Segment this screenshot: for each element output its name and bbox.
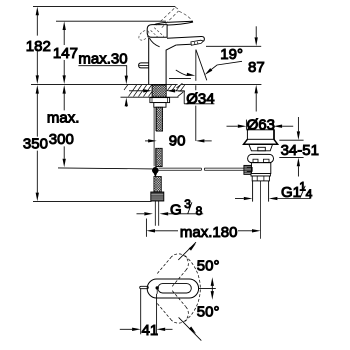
dim 182 vertical with arrows — [36, 15, 38, 76]
counter bottom line left part — [121, 96, 179, 98]
svg-text:350: 350 — [23, 135, 48, 152]
lever swing arc across body — [149, 38, 159, 47]
aerator at spout tip — [191, 40, 204, 45]
faucet lever handle (side view) — [149, 21, 193, 27]
label Ø34 box — [184, 91, 214, 104]
lever width double arrow — [211, 284, 213, 293]
svg-text:max.180: max.180 — [180, 224, 238, 241]
pop-up waste seat washer — [248, 154, 274, 162]
svg-text:147: 147 — [53, 45, 78, 62]
svg-text:G: G — [170, 202, 182, 219]
waste tailpipe centerline — [260, 181, 262, 239]
dim max180 line and arrows — [155, 230, 178, 232]
dim 90 vertical reference from aerator — [195, 85, 197, 141]
svg-text:90: 90 — [169, 133, 186, 150]
counter hatching left of shank — [124, 85, 157, 97]
upper 50 leader — [178, 242, 196, 260]
svg-text:182: 182 — [26, 38, 51, 55]
pop-up waste body — [251, 163, 270, 174]
svg-text:300: 300 — [49, 131, 74, 148]
top view cartridge center dot — [156, 286, 159, 289]
threaded mounting shank through counter — [152, 85, 166, 97]
dim 34-51 arrows — [297, 117, 299, 131]
svg-text:3: 3 — [184, 197, 191, 211]
spout top edge and tip — [167, 36, 204, 41]
dim 34-51 extension lines — [279, 140, 303, 157]
spout underside — [176, 43, 191, 46]
dashed lever tip travel arc — [185, 256, 200, 322]
dashed lever swung up 50 — [157, 257, 186, 286]
flexible hose segment 1 — [156, 107, 162, 131]
svg-text:41: 41 — [142, 322, 159, 339]
svg-text:50°: 50° — [197, 257, 220, 274]
top view faucet body and lever capsule — [147, 279, 198, 298]
flexible hose segment 3 — [154, 177, 161, 192]
counter break marks — [177, 83, 184, 96]
mounting nut — [154, 103, 166, 108]
faucet body left edge — [148, 37, 150, 84]
dashed lever swung down 50 — [157, 291, 186, 320]
waste locknut — [251, 174, 270, 177]
svg-text:Ø34: Ø34 — [186, 90, 214, 107]
dim 87 arrows — [255, 26, 257, 37]
svg-text:87: 87 — [248, 59, 265, 76]
dim Ø63 arrows — [227, 125, 238, 127]
svg-text:8: 8 — [196, 204, 203, 218]
horizontal pop-up rod — [159, 168, 244, 170]
counter bottom line right part — [178, 90, 185, 92]
dim G3/8 arrows at hose end — [137, 213, 145, 215]
dim 41 arrows — [120, 328, 132, 330]
dim max180 extension line — [145, 219, 147, 237]
19-degree arc arrow — [176, 70, 187, 75]
top view lever inner outline — [158, 284, 191, 293]
svg-text:34-51: 34-51 — [281, 142, 319, 159]
dim 350 vertical with arrows — [36, 93, 38, 192]
phantom raised lever (dashed) — [157, 7, 179, 27]
svg-text:max.: max. — [47, 110, 80, 127]
19-degree vertical reference line — [195, 50, 197, 81]
pop-up lift rod (vertical) — [154, 107, 156, 166]
pop-up waste neck — [249, 144, 273, 151]
svg-text:max.30: max.30 — [78, 50, 127, 67]
top view pop-up knob tab — [140, 286, 149, 288]
pop-up waste upper cylinder — [247, 130, 274, 140]
dim max300 vertical with arrows — [63, 93, 65, 158]
19-degree slanted stream line — [196, 50, 207, 81]
svg-text:19°: 19° — [220, 46, 243, 63]
lower 50 leader — [179, 317, 202, 340]
G3/8 hose connector nut — [151, 192, 164, 201]
faucet body right edge — [166, 45, 176, 84]
phantom knob rotated (dashed ellipse) — [137, 29, 151, 42]
dim 87 extension line at spout outlet — [206, 45, 261, 47]
dim Ø34 arrows at counter hole — [129, 90, 143, 92]
pop-up rod ball clamp — [152, 167, 159, 174]
dim 147 top extension line — [56, 20, 166, 22]
pop-up waste flange — [244, 139, 278, 144]
svg-text:Ø63: Ø63 — [247, 117, 275, 134]
svg-text:G1: G1 — [281, 184, 301, 201]
waste tailpipe walls — [253, 181, 269, 202]
svg-text:50°: 50° — [197, 303, 220, 320]
counter hatching right of shank — [167, 85, 185, 91]
pop-up rod ball nut on waste — [244, 165, 252, 174]
pop-up lift knob at rear of body — [139, 63, 149, 68]
dim 147 vertical with arrows — [63, 30, 65, 76]
phantom lever edges inside cap (dashed) — [151, 28, 164, 37]
waste coupling — [252, 176, 269, 181]
phantom lever tip swing arc (dashed) — [179, 11, 192, 20]
dim 41 extension lines — [141, 289, 157, 335]
top view centerline stub — [199, 288, 216, 290]
flexible hose segment 2 — [156, 148, 163, 166]
dim G1 1/4 arrows at tailpipe — [235, 198, 244, 200]
hose end extension line for 350 — [33, 200, 152, 202]
dim 182 top extension line — [33, 5, 175, 7]
svg-text:4: 4 — [306, 187, 313, 201]
faucet lever pivot cap — [147, 25, 167, 38]
pop-up rod slots in waste body — [253, 159, 258, 162]
dim 90 arrows — [145, 140, 148, 142]
dim Ø63 extension lines — [246, 120, 273, 140]
mounting washer under counter — [150, 98, 170, 103]
rod level extension line for max300 — [58, 168, 152, 169]
19-degree label leader — [208, 61, 243, 72]
counter top surface line — [31, 83, 261, 85]
G3/8 threaded end tube — [155, 201, 158, 226]
short line above counter near spout base — [169, 77, 191, 79]
